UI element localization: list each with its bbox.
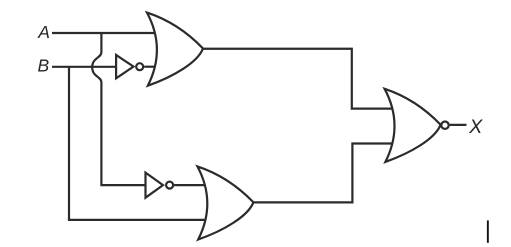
wire B branch vertical down to bottom OR gate [69,67,208,220]
inverter U1 (top NOT gate on B) [116,55,133,78]
svg-text:B: B [38,55,50,75]
wire U2 output to bottom OR gate [174,184,208,186]
or-gate G1 (top, A OR NOT-B) [147,13,203,86]
wire G2 output to NOR gate lower input [253,144,394,203]
or-gate G2 (bottom, NOT-A OR B) [197,166,253,239]
svg-text:A: A [37,22,50,42]
svg-text:X: X [468,116,483,138]
inverter U2 bubble [166,182,173,189]
nor-gate G3 (output stage) [385,89,441,162]
inverter U2 (bottom NOT gate on A) [146,173,164,198]
wire B input to top inverter [52,66,117,68]
wire A branch vertical with hop over B line, down to bottom inverter [92,33,148,185]
inverter U1 bubble [136,63,143,70]
wire U1 output to top OR gate [144,66,158,68]
wire G3 output to X [450,124,467,126]
wire G1 output to NOR gate upper input [203,49,394,109]
cursor bar mark [487,220,489,242]
wire A input to top OR gate [52,32,158,34]
nor-gate G3 bubble [441,122,448,129]
